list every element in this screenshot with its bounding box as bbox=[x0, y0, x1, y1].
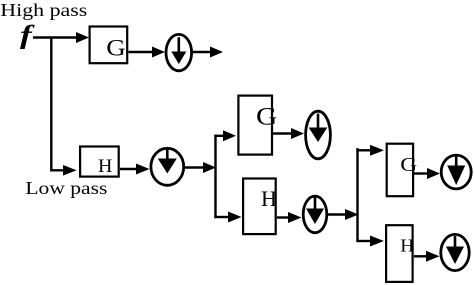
wire H2 to downsampler bbox=[277, 216, 289, 218]
filter box G2 bbox=[238, 96, 272, 155]
wire G2 to downsampler bbox=[273, 132, 292, 134]
downsampler D5 bbox=[441, 155, 471, 189]
wire branch down to low pass bbox=[51, 38, 63, 171]
branch line level3 bbox=[356, 148, 358, 240]
wire branch to H3 bbox=[356, 240, 371, 242]
filter box G3 bbox=[387, 144, 413, 197]
branch line level2 bbox=[214, 135, 216, 219]
downsampler D4 bbox=[303, 196, 327, 233]
wire f to G1 bbox=[33, 36, 77, 38]
wire G1 to downsampler bbox=[129, 51, 154, 53]
filter box G1 bbox=[90, 27, 128, 64]
svg-text:High pass: High pass bbox=[0, 0, 87, 20]
filter box H2 bbox=[243, 179, 276, 235]
downsampler D6 bbox=[441, 234, 469, 270]
svg-text:G: G bbox=[256, 103, 277, 130]
svg-text:f: f bbox=[20, 20, 35, 49]
wire branch to G2 bbox=[214, 135, 224, 137]
svg-text:H: H bbox=[261, 186, 277, 211]
filter box H3 bbox=[386, 225, 413, 282]
svg-text:Low pass: Low pass bbox=[25, 178, 107, 198]
wire D4 to branch node bbox=[327, 213, 346, 215]
svg-text:H: H bbox=[98, 156, 113, 177]
downsampler D1 bbox=[166, 34, 192, 70]
wire G3 to downsampler bbox=[414, 172, 428, 174]
wire branch to G3 bbox=[356, 149, 371, 151]
svg-text:G: G bbox=[106, 36, 126, 61]
wire H3 to downsampler bbox=[414, 255, 427, 257]
wire H1 to downsampler bbox=[120, 168, 137, 170]
wire D2 to branch node bbox=[185, 166, 204, 168]
wire branch to H2 bbox=[214, 216, 229, 218]
svg-text:H: H bbox=[400, 236, 414, 256]
downsampler D3 bbox=[306, 111, 331, 159]
filter box H1 bbox=[80, 147, 119, 177]
wire D1 output bbox=[193, 51, 211, 53]
downsampler D2 bbox=[151, 148, 184, 185]
